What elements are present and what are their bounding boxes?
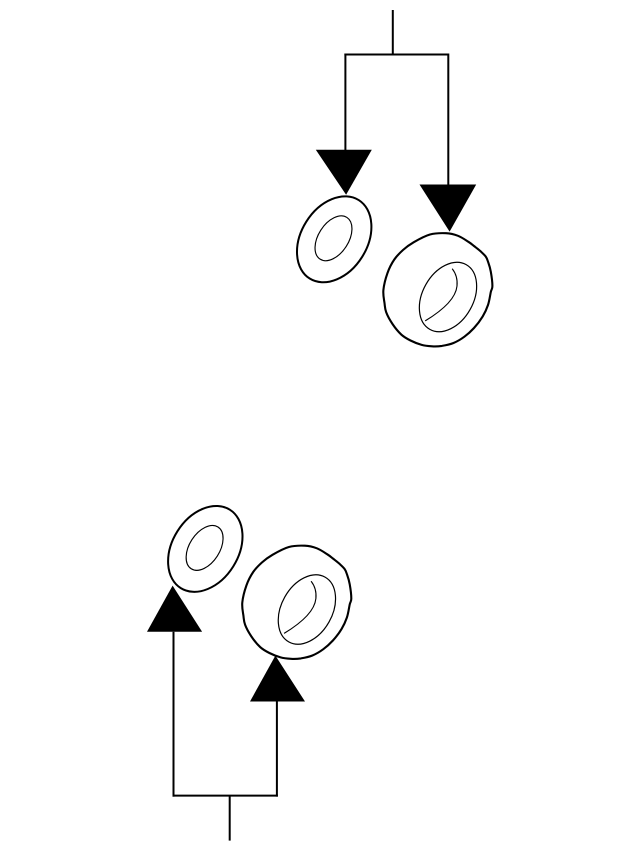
small seal ring (top) inner (307, 209, 359, 267)
small seal ring (top) outer (282, 183, 387, 296)
large seal (top) bore opening (408, 252, 489, 342)
arrow to large seal (bottom, pointing up) (250, 656, 305, 702)
wire: top horizontal bar (344, 54, 448, 56)
arrow to large seal (top, pointing down) (420, 185, 477, 232)
large seal (top) outer body (383, 233, 492, 346)
small seal ring (bottom) outer (153, 492, 258, 605)
wire: bottom horizontal bar (173, 795, 278, 797)
wire: bottom-left riser line (173, 632, 175, 797)
large seal (top) bore depth curve (425, 269, 457, 321)
wire: bottom stem (229, 796, 231, 841)
wire: bottom-right riser line (276, 702, 278, 797)
wire: top stem (392, 10, 394, 55)
large seal (bottom) bore depth curve (284, 581, 316, 633)
large seal (bottom) outer body (242, 546, 351, 659)
small seal ring (bottom) inner (178, 519, 230, 577)
arrow to small seal (top, pointing down) (316, 150, 372, 195)
large seal (bottom) bore opening (267, 565, 348, 655)
wire: top-left drop line (344, 54, 346, 151)
wire: top-right drop line (447, 54, 449, 186)
arrow to small seal (bottom, pointing up) (147, 586, 202, 632)
